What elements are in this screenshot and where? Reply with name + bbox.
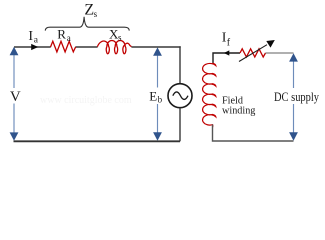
rheostat diagonal arrow bbox=[239, 45, 267, 62]
inductor Xs (red curls) bbox=[97, 41, 131, 54]
svg-text:www circuitglobe com: www circuitglobe com bbox=[40, 95, 132, 106]
node arrow Ia (current arrow on top wire) bbox=[31, 44, 38, 50]
wire: left loop top, segment 2 (between Ra and Xs) bbox=[75, 46, 97, 48]
svg-text:s: s bbox=[94, 9, 98, 19]
wire: left loop top, segment 3 (after Xs) bbox=[131, 46, 180, 48]
svg-text:DC supply: DC supply bbox=[274, 90, 320, 104]
wire: right circuit top-left wire bbox=[213, 53, 240, 64]
current arrow If (left-pointing) bbox=[224, 50, 230, 55]
svg-text:R: R bbox=[57, 26, 66, 41]
svg-text:a: a bbox=[67, 33, 71, 43]
svg-text:s: s bbox=[118, 32, 122, 42]
wire: left loop top, segment 1 bbox=[14, 46, 51, 48]
svg-text:E: E bbox=[149, 88, 157, 103]
wire: right circuit bottom-left wire bbox=[213, 125, 294, 142]
voltage arrow V (blue double arrow, left side) bbox=[13, 53, 15, 88]
wire: left loop right side (bottom segment) bbox=[179, 108, 181, 142]
wire: left loop bottom wire bbox=[14, 140, 181, 142]
resistor Ra (red zigzag) bbox=[51, 41, 76, 52]
svg-text:V: V bbox=[10, 89, 21, 105]
svg-text:b: b bbox=[158, 95, 163, 105]
voltage arrow Eb (blue double arrow) bbox=[157, 54, 159, 88]
svg-text:winding: winding bbox=[222, 106, 255, 117]
svg-text:I: I bbox=[28, 29, 33, 44]
wire: left loop right side (top segment) bbox=[179, 46, 181, 84]
inductor field winding (red vertical curls) bbox=[203, 63, 216, 127]
AC source (circle with sine) bbox=[168, 84, 192, 108]
voltage arrow DC supply (blue double arrow, right side) bbox=[293, 59, 295, 88]
brace Zs (curly brace over Ra and Xs) bbox=[45, 17, 129, 31]
rheostat (variable field resistor, red zigzag) bbox=[240, 49, 266, 57]
wire: right circuit top-right wire (gray) bbox=[266, 52, 294, 54]
